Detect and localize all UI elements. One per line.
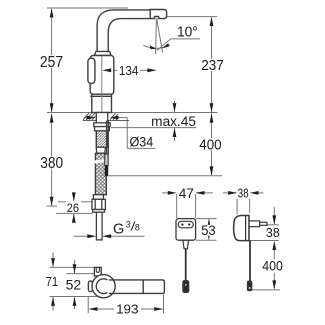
svg-text:400: 400 <box>199 137 221 154</box>
svg-text:257: 257 <box>40 54 63 71</box>
svg-text:3: 3 <box>126 219 131 229</box>
svg-text:53: 53 <box>201 222 216 238</box>
svg-text:380: 380 <box>40 155 63 172</box>
svg-text:38: 38 <box>238 186 249 201</box>
svg-text:10°: 10° <box>177 24 198 41</box>
svg-text:400: 400 <box>262 258 283 274</box>
svg-text:max.45: max.45 <box>151 114 196 129</box>
svg-text:47: 47 <box>179 185 194 201</box>
svg-text:G: G <box>113 221 124 237</box>
svg-text:71: 71 <box>46 275 59 289</box>
svg-text:193: 193 <box>116 302 138 317</box>
svg-text:8: 8 <box>135 223 140 233</box>
svg-text:52: 52 <box>66 277 82 292</box>
svg-text:134: 134 <box>119 63 138 78</box>
svg-text:38: 38 <box>266 225 280 240</box>
svg-text:Ø34: Ø34 <box>130 135 154 151</box>
svg-text:237: 237 <box>201 57 224 74</box>
svg-text:26: 26 <box>67 201 79 215</box>
